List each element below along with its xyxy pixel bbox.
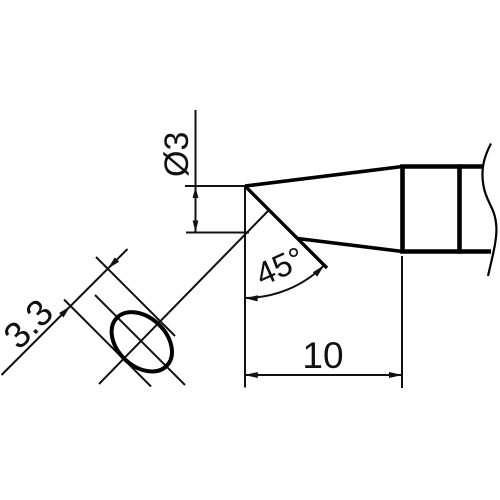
svg-text:Ø3: Ø3	[158, 132, 196, 177]
svg-text:10: 10	[302, 335, 343, 376]
